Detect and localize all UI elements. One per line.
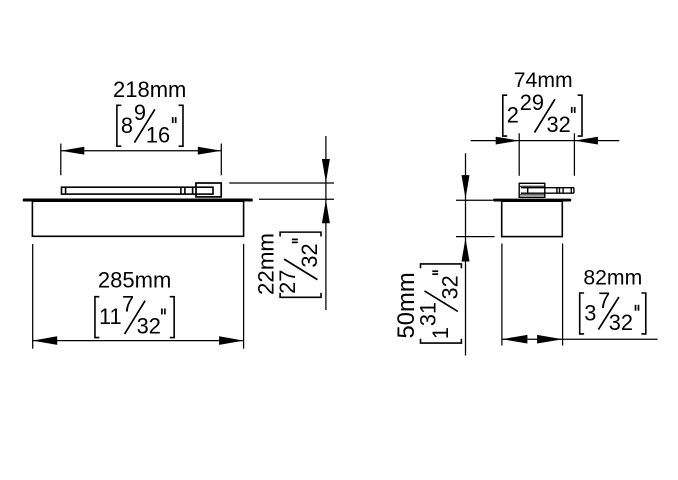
svg-text:1: 1 — [428, 327, 453, 339]
dimension 50mm: vertical dimension line — [465, 153, 467, 355]
dimension 50mm: down arrowhead — [462, 175, 470, 199]
dimension 82mm: right arrowhead — [537, 335, 563, 344]
holder inner top line — [520, 185, 545, 187]
svg-text:7: 7 — [122, 292, 134, 317]
svg-text:285mm: 285mm — [98, 267, 171, 292]
wall flange cover plate (front view, filled bar) — [23, 199, 253, 202]
svg-text:218mm: 218mm — [113, 77, 186, 102]
label [2 29/32"] fraction group — [503, 90, 582, 137]
svg-text:32: 32 — [137, 314, 161, 339]
dimension 50mm: up arrowhead — [462, 238, 470, 262]
dimension 22mm: vertical dimension line — [325, 136, 327, 310]
dimension 74mm: left arrowhead (outside, pointing right) — [496, 137, 520, 145]
svg-text:8: 8 — [121, 113, 133, 138]
dimension 218mm: extension lines — [61, 144, 222, 176]
svg-text:29: 29 — [520, 90, 544, 115]
dimension 74mm: extension lines — [471, 133, 620, 176]
svg-text:32: 32 — [438, 275, 463, 299]
svg-text:11: 11 — [99, 304, 122, 329]
wall flange cover plate (side view, filled bar) — [493, 199, 571, 202]
svg-text:32: 32 — [297, 243, 322, 267]
dimension 285mm: extension lines — [33, 244, 244, 349]
dimension 218mm: right arrowhead — [198, 147, 222, 155]
dimension 285mm: left arrowhead — [33, 336, 58, 345]
dimension 82mm: extension lines — [502, 244, 658, 346]
svg-text:82mm: 82mm — [583, 266, 642, 289]
recessed body box (side view) — [502, 201, 563, 236]
label [8 9/16"] fraction group — [117, 100, 183, 147]
dimension 285mm: dimension line — [33, 340, 244, 342]
dimension 50mm: wall-level extension line — [456, 199, 493, 201]
svg-text:2: 2 — [507, 103, 519, 128]
shelf holder bracket (side view) — [519, 183, 545, 197]
dimension 22mm: up arrowhead — [322, 200, 330, 224]
svg-text:32: 32 — [609, 310, 633, 335]
dimension 74mm: right arrowhead (outside, pointing left) — [574, 137, 598, 145]
dimension 22mm: top extension line — [229, 182, 334, 184]
dimension 82mm: dimension line — [502, 338, 658, 340]
svg-text:74mm: 74mm — [514, 69, 573, 92]
dimension 74mm: dimension line — [471, 140, 620, 142]
svg-text:16: 16 — [146, 122, 170, 147]
svg-text:31: 31 — [415, 302, 440, 326]
dimension 218mm: dimension line — [61, 150, 222, 152]
dimension 22mm: bottom extension line — [259, 198, 334, 200]
dimension 285mm: right arrowhead — [219, 336, 244, 345]
svg-text:27: 27 — [275, 270, 300, 294]
label [3 7/32"] fraction group — [580, 288, 646, 335]
svg-text:32: 32 — [546, 112, 570, 137]
shelf glass plate (front view) — [62, 187, 214, 194]
holder inner bottom line — [520, 194, 545, 196]
dimension 22mm: down arrowhead — [322, 159, 330, 183]
shelf holder bracket (front view) — [196, 183, 221, 197]
dimension 50mm: body-bottom extension line — [456, 236, 495, 238]
svg-text:9: 9 — [134, 100, 146, 125]
label [1 31/32"] fraction group (rotated) — [415, 264, 462, 343]
label [11 7/32"] fraction group — [95, 292, 174, 339]
shelf glass plate (side view) — [521, 188, 574, 194]
label [27/32"] fraction group (rotated) — [275, 232, 322, 297]
recessed body box (front view) — [32, 201, 243, 236]
dimension 218mm: left arrowhead — [61, 147, 85, 155]
svg-text:3: 3 — [584, 301, 596, 326]
dimension 82mm: left arrowhead — [502, 335, 528, 344]
